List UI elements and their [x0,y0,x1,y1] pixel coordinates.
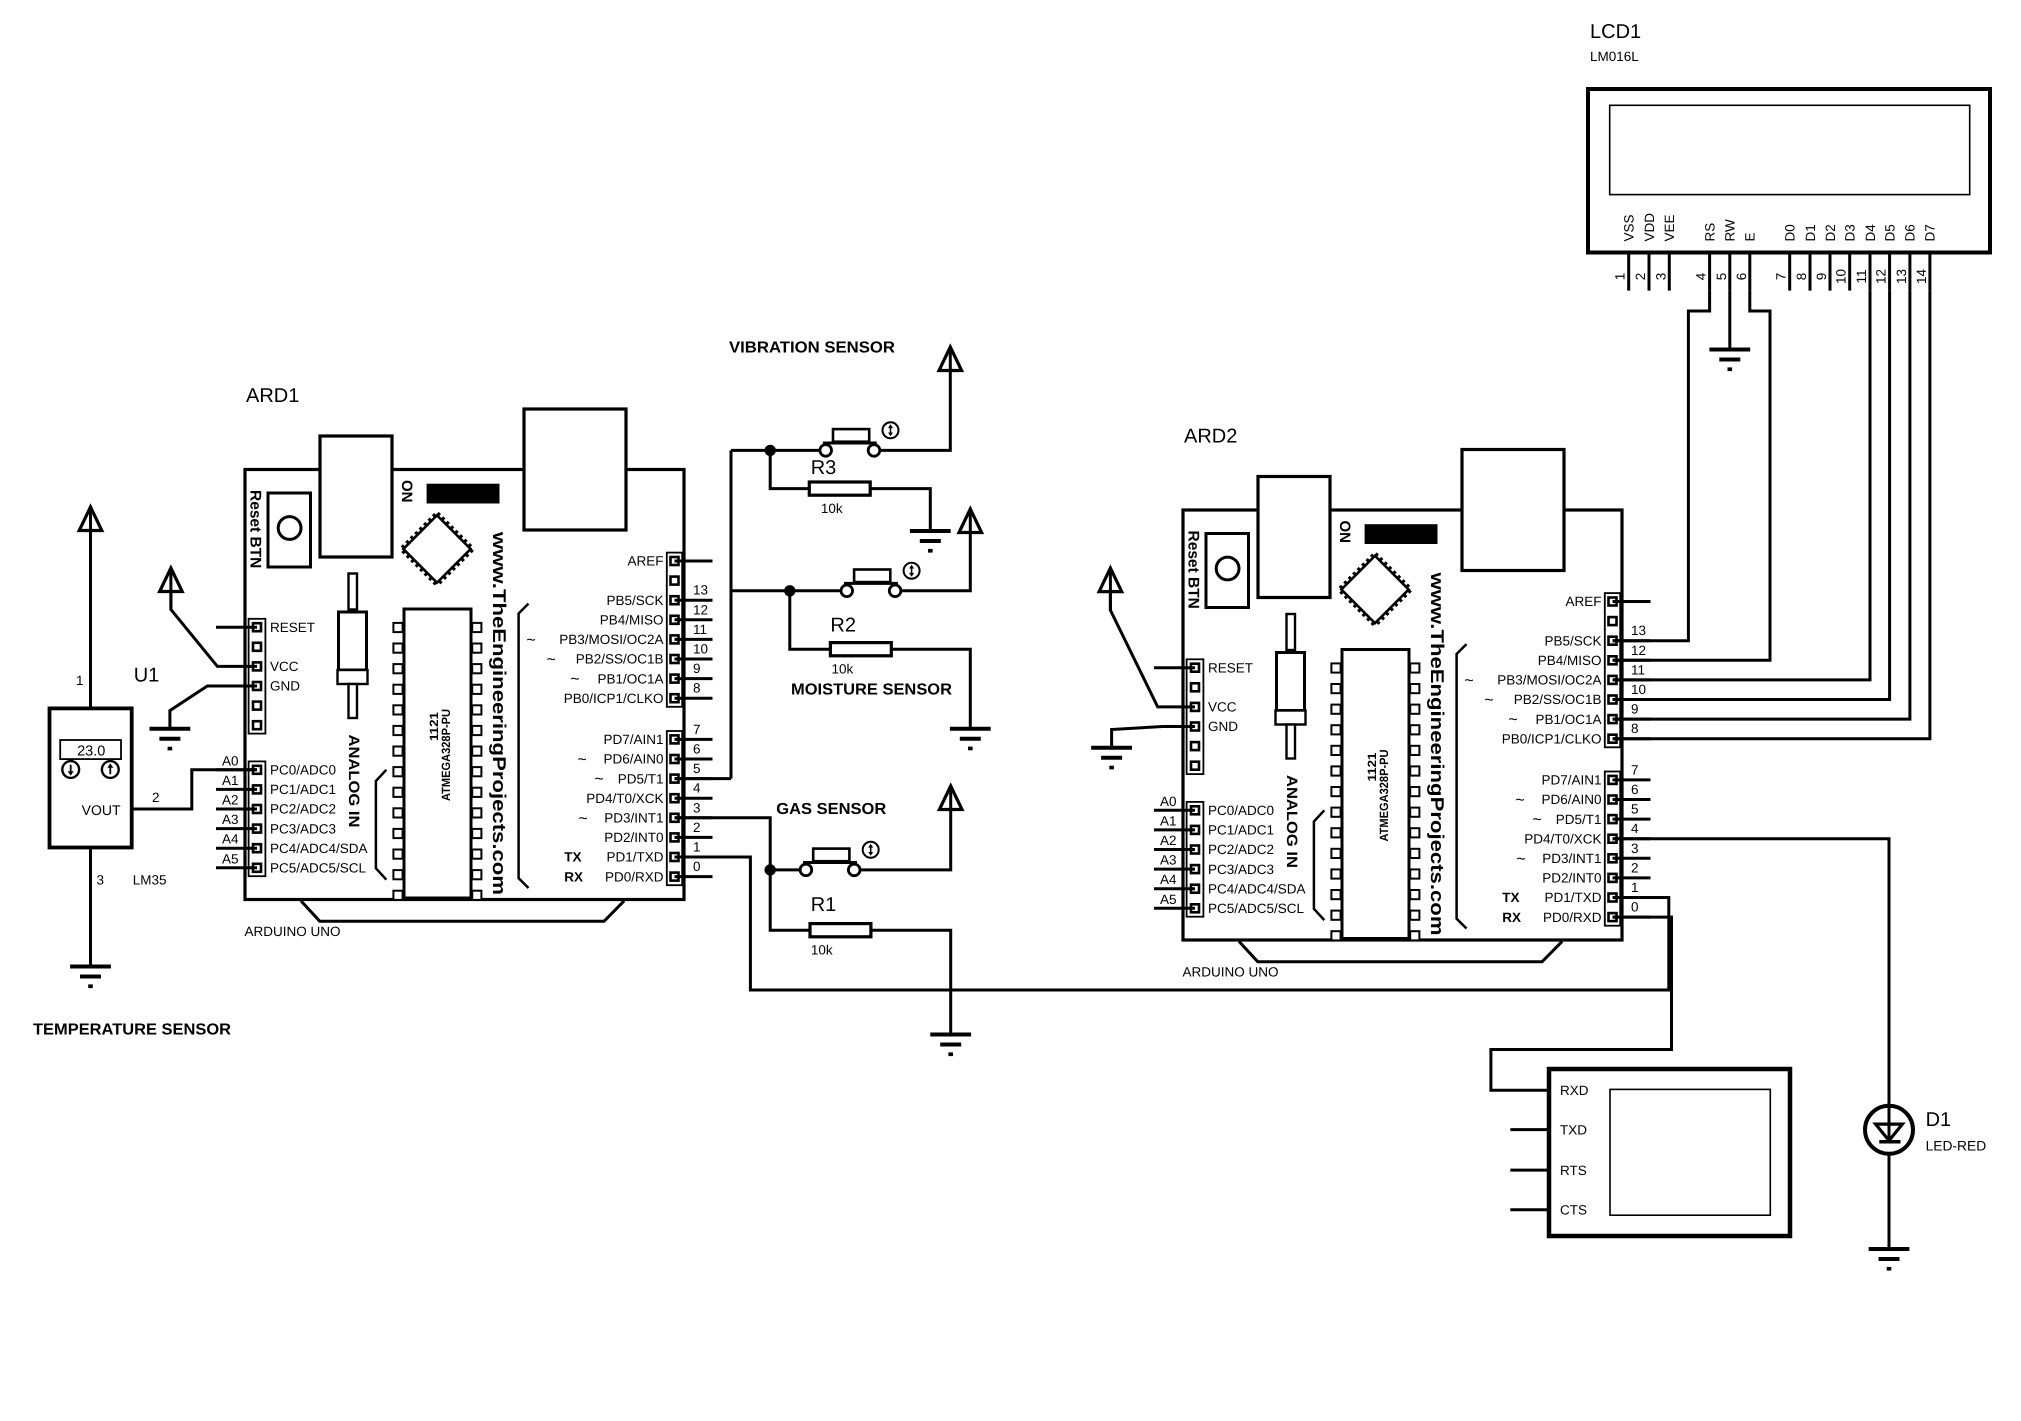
svg-text:RS: RS [1702,223,1717,242]
LCD pin 5 (RW) lead [1728,253,1731,291]
svg-text:10k: 10k [821,501,843,516]
pin stub A4 [216,847,257,850]
svg-text:14: 14 [1914,269,1929,285]
wire R3 left lead [770,450,809,488]
LED D1 [1865,1106,1913,1154]
svg-text:~: ~ [546,652,555,669]
svg-text:5: 5 [1631,802,1639,817]
ground (ARD2 GND) [1091,748,1132,770]
wire vibration node horizontal [731,449,820,452]
svg-text:6: 6 [693,742,701,757]
wire R2 left lead [790,591,831,649]
wire R2 right to ground [891,649,970,729]
svg-text:~: ~ [1464,672,1473,689]
analog input header [249,761,266,876]
svg-text:ARDUINO UNO: ARDUINO UNO [245,924,341,939]
temperature sensor U1 (LM35) [50,665,167,888]
svg-text:2: 2 [152,790,160,805]
pin stub PB3/MOSI/OC2A [1613,678,1651,681]
LCD pin 11 (D4) lead [1869,253,1872,291]
crystal/oscillator [349,574,358,610]
svg-text:D1: D1 [1926,1109,1952,1131]
svg-text:TEMPERATURE SENSOR: TEMPERATURE SENSOR [33,1022,231,1039]
svg-text:AREF: AREF [1565,594,1601,609]
junction (vibration node) [765,445,776,456]
LCD display LCD1 (LM016L) [1588,21,1990,291]
Arduino UNO board ARD1 [216,385,713,939]
svg-text:VDD: VDD [1642,213,1657,242]
svg-text:12: 12 [693,602,708,617]
svg-text:13: 13 [1631,623,1646,638]
svg-text:GND: GND [270,679,300,694]
analog pins bracket [376,770,386,880]
svg-text:5: 5 [1714,273,1729,281]
ground (ARD1 GND) [150,729,191,751]
serial port module (RXD/TXD/RTS/CTS) [1510,1069,1790,1236]
svg-text:ON: ON [1336,521,1353,544]
svg-text:PD0/RXD: PD0/RXD [605,869,664,884]
svg-text:Reset BTN: Reset BTN [1185,531,1202,609]
svg-text:7: 7 [1774,273,1789,281]
wire U1 pin1 to +5V [89,507,92,707]
svg-text:PD5/T1: PD5/T1 [618,771,664,786]
svg-text:A1: A1 [1160,813,1177,828]
pin stub PD1/TXD [1613,896,1651,899]
svg-text:PB5/SCK: PB5/SCK [1544,633,1601,648]
DIP-28 IC ATMEGA328P-PU [404,609,471,898]
svg-text:8: 8 [1794,273,1809,281]
ground (R3) [910,531,951,553]
svg-text:RESET: RESET [1208,660,1253,675]
ON LED bar [427,484,500,504]
svg-text:A2: A2 [1160,833,1177,848]
svg-text:2: 2 [1631,860,1639,875]
svg-text:GAS SENSOR: GAS SENSOR [776,801,886,818]
wire U1 VOUT to ARD1 A0 [131,770,257,809]
svg-text:3: 3 [1631,841,1639,856]
svg-text:D6: D6 [1903,224,1918,241]
svg-text:TX: TX [1502,890,1519,905]
svg-text:2: 2 [1633,273,1648,281]
pin stub PB3/MOSI/OC2A [675,638,713,641]
svg-text:VCC: VCC [1208,700,1237,715]
svg-text:13: 13 [1894,269,1909,284]
svg-text:23.0: 23.0 [77,744,105,760]
svg-text:PD4/T0/XCK: PD4/T0/XCK [586,791,663,806]
pin stub PD7/AIN1 [675,738,713,741]
right header PB [1605,593,1620,747]
pin stub AREF [1613,600,1651,603]
wire LCD D6 to ARD2 PB1 (pin9) [1613,291,1910,719]
junction (gas node) [765,864,776,875]
svg-text:~: ~ [577,752,586,769]
svg-text:8: 8 [693,681,701,696]
ground (LED D1) [1869,1249,1910,1271]
QFP chip (diamond) [402,514,473,585]
power +5V (U1) [79,507,102,531]
pin stub PD3/INT1 [675,816,713,819]
LCD pin 14 (D7) lead [1928,253,1931,291]
ON LED bar [1365,524,1438,544]
wire ARD2 PD0/RXD to serial RXD [1491,917,1672,1090]
digital pins bracket [1457,644,1467,928]
svg-text:~: ~ [526,632,535,649]
wire ARD1 PD3 to gas node [675,818,771,870]
board outline [1183,510,1622,940]
pin stub PB5/SCK [1613,639,1651,642]
svg-text:ATMEGA328P-PU: ATMEGA328P-PU [1377,750,1391,842]
svg-text:D0: D0 [1783,224,1798,241]
wire vibration switch to +5V [880,371,951,451]
power +5V (vibration) [939,347,962,371]
svg-text:www.TheEngineeringProjects.com: www.TheEngineeringProjects.com [489,531,510,895]
svg-text:~: ~ [1515,792,1524,809]
svg-text:10: 10 [693,642,708,657]
svg-text:A2: A2 [222,793,239,808]
wire ARD1 PD1/TXD to ARD2 PD1/TXD [675,857,1669,990]
svg-text:E: E [1743,232,1758,241]
pin stub PD0/RXD [1613,916,1651,919]
pin stub RTS [1510,1169,1549,1172]
svg-text:1: 1 [76,673,84,688]
ground (U1) [70,967,111,989]
svg-text:11: 11 [1631,662,1645,677]
svg-text:PB2/SS/OC1B: PB2/SS/OC1B [576,652,664,667]
push switch (vibration sensor) [820,422,899,456]
push switch (gas sensor) [800,842,879,876]
svg-text:A3: A3 [1160,853,1177,868]
svg-text:PC2/ADC2: PC2/ADC2 [1208,842,1274,857]
svg-text:PC1/ADC1: PC1/ADC1 [1208,823,1274,838]
svg-text:PD7/AIN1: PD7/AIN1 [603,732,663,747]
svg-text:MOISTURE SENSOR: MOISTURE SENSOR [791,682,952,699]
svg-text:7: 7 [1631,762,1639,777]
svg-text:3: 3 [97,873,105,888]
power jack [1462,450,1564,571]
svg-text:~: ~ [570,671,579,688]
pin stub PB5/SCK [675,599,713,602]
svg-text:PD2/INT0: PD2/INT0 [604,830,663,845]
wire R1 left lead [770,870,810,930]
power +5V (ARD2 VCC) [1099,568,1122,592]
svg-text:ANALOG IN: ANALOG IN [1283,775,1300,868]
svg-text:A4: A4 [1160,872,1177,887]
left power header [1187,659,1204,774]
LCD pin 3 (VEE) lead [1668,253,1671,291]
Arduino UNO board ARD2 [1154,426,1651,980]
svg-text:CTS: CTS [1560,1202,1587,1217]
svg-text:8: 8 [1631,721,1639,736]
svg-text:A5: A5 [222,851,239,866]
svg-text:9: 9 [693,661,701,676]
svg-text:D4: D4 [1863,224,1878,242]
board outline [245,470,684,900]
wire LCD D5 to ARD2 PB2 (pin10) [1613,291,1890,700]
svg-text:LED-RED: LED-RED [1926,1139,1987,1154]
LCD pin 10 (D3) lead [1848,253,1851,291]
svg-text:PB4/MISO: PB4/MISO [600,613,664,628]
pin stub A2 [216,808,257,811]
svg-text:D7: D7 [1923,224,1938,241]
svg-text:PB2/SS/OC1B: PB2/SS/OC1B [1514,692,1602,707]
svg-text:PD1/TXD: PD1/TXD [1544,890,1601,905]
svg-text:PD5/T1: PD5/T1 [1556,812,1602,827]
svg-text:1: 1 [1631,880,1639,895]
pin stub PB2/SS/OC1B [675,658,713,661]
svg-text:0: 0 [1631,900,1639,915]
crystal/oscillator [1287,614,1296,650]
pin stub PD5/T1 [1613,818,1651,821]
pin stub PD6/AIN0 [1613,798,1651,801]
pin stub PD7/AIN1 [1613,778,1651,781]
svg-text:R1: R1 [811,894,837,916]
svg-text:PD0/RXD: PD0/RXD [1543,910,1602,925]
svg-text:ANALOG IN: ANALOG IN [345,735,362,828]
svg-text:~: ~ [578,810,587,827]
wire moisture node horizontal [731,589,842,592]
svg-text:ARD1: ARD1 [246,385,299,407]
svg-text:PD4/T0/XCK: PD4/T0/XCK [1524,831,1601,846]
svg-text:Reset BTN: Reset BTN [247,490,264,568]
svg-text:A4: A4 [222,832,239,847]
wire LCD D4 to ARD2 PB3 (pin11) [1613,291,1871,680]
svg-text:VOUT: VOUT [82,802,121,818]
pin stub A0 [1154,809,1195,812]
svg-text:2: 2 [693,820,701,835]
resistor R3 body [809,482,870,495]
svg-text:4: 4 [1694,272,1709,280]
serial module body [1549,1069,1790,1236]
svg-text:10k: 10k [811,943,833,958]
svg-text:LCD1: LCD1 [1590,21,1641,43]
pin stub PD3/INT1 [1613,857,1651,860]
power jack [524,409,626,530]
svg-text:PC1/ADC1: PC1/ADC1 [270,782,336,797]
pin stub A1 [216,788,257,791]
analog pins bracket [1314,810,1324,920]
svg-text:A0: A0 [222,753,239,768]
right header PB [667,553,682,707]
wire LCD RS to ARD2 PB5 (pin13) [1613,291,1710,641]
svg-text:R2: R2 [830,615,856,637]
svg-text:4: 4 [693,781,701,796]
svg-text:A1: A1 [222,773,239,788]
svg-text:PD1/TXD: PD1/TXD [606,850,663,865]
wire moisture switch to +5V [900,533,970,591]
svg-text:7: 7 [693,722,701,737]
svg-text:~: ~ [594,771,603,788]
analog input header [1187,802,1204,917]
left power header [249,619,266,734]
svg-text:PC0/ADC0: PC0/ADC0 [270,763,336,778]
LM35 body [50,708,132,847]
svg-text:ARDUINO UNO: ARDUINO UNO [1183,965,1279,980]
svg-text:PB4/MISO: PB4/MISO [1538,653,1602,668]
QFP chip (diamond) [1340,554,1411,625]
svg-text:11: 11 [693,622,707,637]
svg-text:PB5/SCK: PB5/SCK [606,593,663,608]
svg-text:RX: RX [564,869,583,884]
svg-text:LM016L: LM016L [1590,49,1639,64]
pin stub TXD [1510,1128,1549,1131]
svg-text:GND: GND [1208,719,1238,734]
right header PD [667,731,682,885]
svg-text:RTS: RTS [1560,1163,1587,1178]
wire ARD1 PD5 to vibration node (vertical) [730,450,733,778]
pin stub A5 [216,866,257,869]
svg-text:0: 0 [693,859,701,874]
svg-text:PB3/MOSI/OC2A: PB3/MOSI/OC2A [559,632,663,647]
LCD pin 2 (VDD) lead [1648,253,1651,291]
wire PD5 stub extension [675,777,732,780]
svg-text:9: 9 [1631,702,1639,717]
svg-text:PC3/ADC3: PC3/ADC3 [1208,862,1274,877]
svg-text:PB1/OC1A: PB1/OC1A [597,671,663,686]
pin stub PB1/OC1A [675,677,713,680]
ground (R1) [930,1035,971,1057]
svg-text:A3: A3 [222,812,239,827]
svg-text:PC4/ADC4/SDA: PC4/ADC4/SDA [270,841,368,856]
wire ARD1 GND to ground [170,686,257,729]
bottom trapezoid [1239,941,1562,961]
digital pins bracket [519,604,529,888]
pin stub PD2/INT0 [675,836,713,839]
wire ARD2 GND to ground [1112,727,1195,748]
LCD pin 8 (D1) lead [1809,253,1812,291]
wire LED D1 to ground [1888,1154,1891,1249]
pin stub A3 [1154,868,1195,871]
LCD pin 12 (D5) lead [1888,253,1891,291]
svg-text:VEE: VEE [1662,214,1677,241]
svg-text:PD7/AIN1: PD7/AIN1 [1541,773,1601,788]
pin stub A4 [1154,887,1195,890]
pin stub PB2/SS/OC1B [1613,698,1651,701]
svg-text:3: 3 [693,800,701,815]
LCD screen [1610,105,1970,194]
bottom trapezoid [301,901,624,921]
LCD pin 6 (E) lead [1748,253,1751,291]
svg-text:9: 9 [1814,273,1829,281]
down button [62,761,79,778]
wire ARD1 VCC to +5V [171,592,257,667]
up button [102,761,119,778]
svg-text:R3: R3 [811,457,837,479]
pin stub PD6/AIN0 [675,758,713,761]
svg-text:RW: RW [1723,219,1738,242]
wire R1 right to ground [871,930,951,1034]
wire R3 right to ground [870,489,930,531]
svg-text:1: 1 [693,840,701,855]
reset button [268,493,311,567]
power +5V (moisture) [959,509,982,533]
pin stub RESET [1154,666,1195,669]
svg-text:TX: TX [564,850,581,865]
DIP-28 IC ATMEGA328P-PU [1342,650,1409,939]
reset button [1206,534,1249,608]
svg-text:5: 5 [693,761,701,776]
pin stub A2 [1154,848,1195,851]
svg-text:U1: U1 [134,665,160,687]
wire U1 pin3 to ground [89,849,92,966]
svg-text:~: ~ [1508,712,1517,729]
svg-text:PB1/OC1A: PB1/OC1A [1535,712,1601,727]
wire ARD2 PD4 to LED D1 [1613,839,1890,1106]
svg-text:ARD2: ARD2 [1184,426,1237,448]
svg-text:www.TheEngineeringProjects.com: www.TheEngineeringProjects.com [1427,571,1448,935]
svg-text:PD6/AIN0: PD6/AIN0 [1541,792,1601,807]
svg-text:TXD: TXD [1560,1122,1587,1137]
pin stub CTS [1510,1208,1549,1211]
svg-text:RX: RX [1502,910,1521,925]
svg-text:VCC: VCC [270,659,299,674]
svg-text:ON: ON [398,480,415,503]
svg-text:PC0/ADC0: PC0/ADC0 [1208,803,1274,818]
svg-text:3: 3 [1653,273,1668,281]
svg-text:PD2/INT0: PD2/INT0 [1542,871,1601,886]
svg-text:RESET: RESET [270,620,315,635]
pin stub A5 [1154,907,1195,910]
USB connector [320,436,392,557]
svg-text:PC5/ADC5/SCL: PC5/ADC5/SCL [270,861,367,876]
svg-text:PB0/ICP1/CLKO: PB0/ICP1/CLKO [564,691,664,706]
LCD pin 4 (RS) lead [1708,253,1711,291]
svg-text:D3: D3 [1843,224,1858,241]
power +5V (ARD1 VCC) [160,568,183,592]
pin stub PB4/MISO [675,618,713,621]
svg-text:11: 11 [1854,269,1869,283]
LCD pin 9 (D2) lead [1829,253,1832,291]
svg-text:~: ~ [1532,812,1541,829]
pin stub PD1/TXD [675,856,713,859]
pin stub RESET [216,626,257,629]
pin stub PD2/INT0 [1613,876,1651,879]
pin stub PD4/T0/XCK [1613,837,1651,840]
svg-text:VIBRATION SENSOR: VIBRATION SENSOR [729,340,895,357]
svg-text:PB3/MOSI/OC2A: PB3/MOSI/OC2A [1497,673,1601,688]
svg-text:6: 6 [1631,782,1639,797]
resistor R1 body [810,924,871,937]
wire LCD RW to ground [1728,291,1731,350]
pin stub PB4/MISO [1613,659,1651,662]
power +5V (gas) [939,786,962,810]
pin stub PD5/T1 [675,777,713,780]
USB connector [1258,477,1330,598]
pin stub A0 [216,768,257,771]
resistor R2 body [830,643,891,656]
svg-text:PC4/ADC4/SDA: PC4/ADC4/SDA [1208,881,1306,896]
svg-text:4: 4 [1631,821,1639,836]
svg-text:1: 1 [1613,273,1628,281]
svg-text:PC2/ADC2: PC2/ADC2 [270,802,336,817]
LM35 display [60,740,121,759]
svg-text:D5: D5 [1882,224,1897,241]
svg-text:PC3/ADC3: PC3/ADC3 [270,821,336,836]
svg-text:D1: D1 [1803,224,1818,241]
pin stub PB1/OC1A [1613,718,1651,721]
LCD pin 13 (D6) lead [1908,253,1911,291]
right header PD [1605,772,1620,926]
LCD pin 7 (D0) lead [1788,253,1791,291]
ground (LCD RW) [1709,350,1750,372]
pin stub PD4/T0/XCK [675,797,713,800]
svg-text:PB0/ICP1/CLKO: PB0/ICP1/CLKO [1502,731,1602,746]
wire gas switch to +5V [860,810,951,870]
svg-text:VSS: VSS [1622,214,1637,241]
svg-text:13: 13 [693,583,708,598]
svg-text:A5: A5 [1160,892,1177,907]
svg-text:D2: D2 [1823,224,1838,241]
svg-text:PC5/ADC5/SCL: PC5/ADC5/SCL [1208,901,1305,916]
